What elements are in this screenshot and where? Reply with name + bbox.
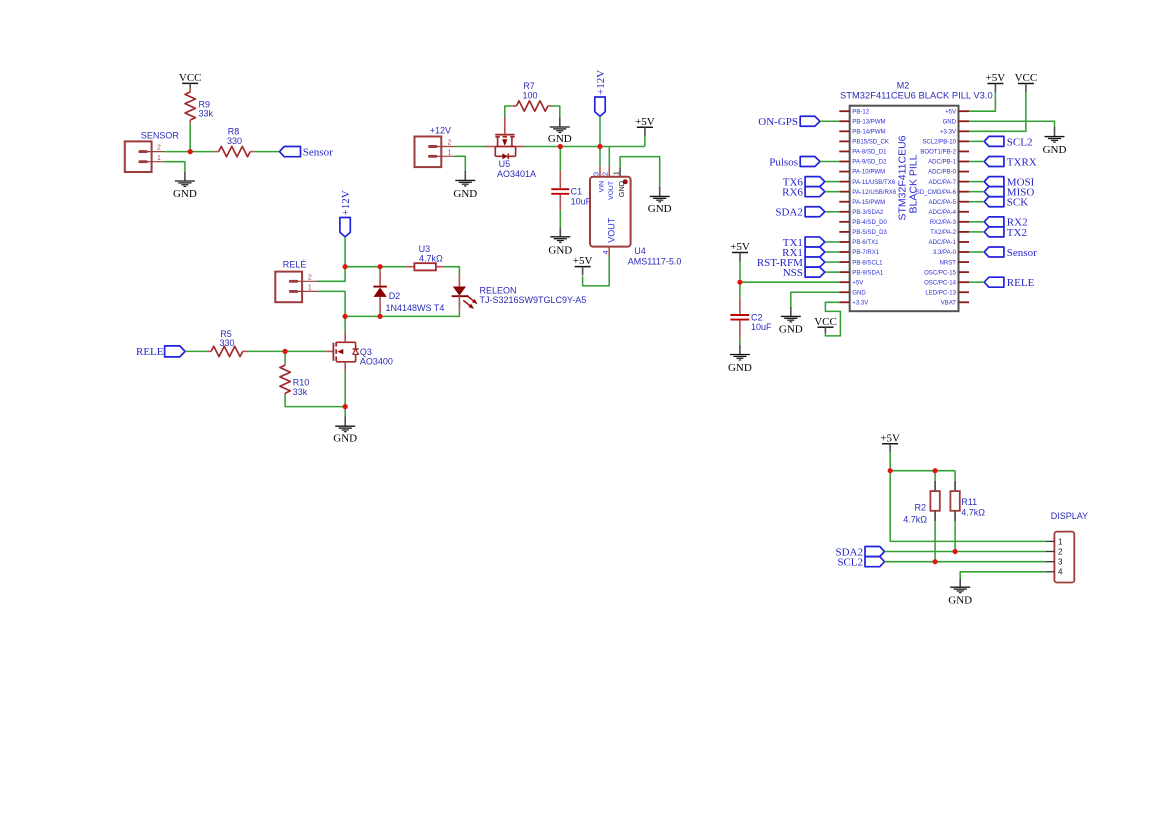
junction xyxy=(953,549,958,554)
pin PB-3/SDA2 xyxy=(839,211,849,213)
svg-text:ADC/PA-5: ADC/PA-5 xyxy=(929,200,957,206)
pin GND xyxy=(959,120,970,122)
svg-text:+5V: +5V xyxy=(573,255,593,267)
svg-text:BLACK PILL: BLACK PILL xyxy=(908,154,920,213)
ground xyxy=(333,417,357,445)
wire +5V drop xyxy=(889,453,891,471)
junction xyxy=(343,404,348,409)
pin ADC/PA-7 xyxy=(959,181,970,183)
pin PA-10/PWM xyxy=(839,171,849,173)
svg-text:SCL2/PB-10: SCL2/PB-10 xyxy=(922,140,956,146)
pin PB-5/SD_D3 xyxy=(839,231,849,233)
svg-text:10uF: 10uF xyxy=(571,196,592,206)
wire flag to junction xyxy=(344,237,346,267)
svg-text:DISPLAY: DISPLAY xyxy=(1051,511,1088,521)
svg-text:PA-12/USB/RX6: PA-12/USB/RX6 xyxy=(852,190,897,196)
resistor R5 xyxy=(207,329,248,357)
capacitor C2 xyxy=(730,282,772,345)
svg-text:TJ-S3216SW9TGLC9Y-A5: TJ-S3216SW9TGLC9Y-A5 xyxy=(480,295,587,305)
transistor Q3 AO3400 xyxy=(326,332,393,371)
svg-text:10uF: 10uF xyxy=(751,322,772,332)
svg-text:BOOT1/PB-2: BOOT1/PB-2 xyxy=(920,150,956,156)
connector SENSOR xyxy=(125,131,180,172)
wire main +12V rail xyxy=(524,146,645,148)
wire display pin3 xyxy=(885,561,1046,563)
svg-text:+5V: +5V xyxy=(635,116,655,128)
svg-text:SENSOR: SENSOR xyxy=(141,131,180,141)
svg-text:LED/PC-13: LED/PC-13 xyxy=(925,290,956,296)
net label SCK xyxy=(969,197,1028,209)
wire source down xyxy=(344,371,346,417)
pin +5V xyxy=(959,110,970,112)
svg-text:2: 2 xyxy=(601,172,610,176)
net label RX6 xyxy=(782,187,839,199)
junction xyxy=(933,468,938,473)
svg-text:RX6: RX6 xyxy=(782,187,803,199)
svg-text:4: 4 xyxy=(601,250,610,254)
wire display pin2 xyxy=(885,551,1046,553)
svg-text:PB-5/SD_D3: PB-5/SD_D3 xyxy=(852,230,887,236)
svg-text:+3.3V: +3.3V xyxy=(940,130,956,136)
connector +12V xyxy=(415,126,455,167)
svg-text:VCC: VCC xyxy=(814,316,837,328)
pin ADC/PA-1 xyxy=(959,241,970,243)
wire pin2 to U5 source xyxy=(455,146,486,148)
svg-text:GND: GND xyxy=(453,188,477,200)
wire bottom rail xyxy=(345,311,459,316)
svg-text:OSC/PC-15: OSC/PC-15 xyxy=(924,270,957,276)
svg-text:2: 2 xyxy=(157,145,161,152)
pin SCL2/PB-10 xyxy=(959,140,970,142)
svg-text:OSC/PC-14: OSC/PC-14 xyxy=(924,280,957,286)
wire U4 pin4 to +5V xyxy=(583,256,610,286)
wire pin2 up to +12V junction xyxy=(317,267,345,282)
svg-text:GND: GND xyxy=(948,594,972,606)
wire +3.3V pin to VCC xyxy=(969,92,1026,131)
wire R5 to gate junction xyxy=(248,350,326,352)
wire top rail xyxy=(890,470,955,472)
wire to U4 VOUT pin2 xyxy=(608,147,610,167)
pin ADC/PB-1 xyxy=(959,160,970,162)
pin PA-8/SD_D1 xyxy=(839,150,849,152)
wire +3.3V pin to VCC loop xyxy=(825,302,840,336)
svg-text:1: 1 xyxy=(157,155,161,162)
svg-text:+12V: +12V xyxy=(340,190,352,215)
pin NRST xyxy=(959,261,970,263)
wire +5V rail xyxy=(740,281,839,283)
svg-text:GND: GND xyxy=(1043,144,1067,156)
module M2 STM32F411CEU6 BLACK PILL xyxy=(839,80,992,311)
svg-text:AO3401A: AO3401A xyxy=(497,169,536,179)
svg-text:Sensor: Sensor xyxy=(1007,247,1037,259)
net label TX1 xyxy=(783,237,840,249)
svg-text:GND: GND xyxy=(173,188,197,200)
wire +5V drop xyxy=(739,261,741,282)
pin PA-12/USB/RX6 xyxy=(839,191,849,193)
resistor R9 xyxy=(185,89,214,124)
svg-text:3.3/PA-0: 3.3/PA-0 xyxy=(933,250,957,256)
regulator U4 AMS1117-5.0 xyxy=(590,166,681,266)
svg-text:U4: U4 xyxy=(634,246,646,256)
svg-text:1N4148WS T4: 1N4148WS T4 xyxy=(386,303,445,313)
ground xyxy=(548,117,572,145)
svg-text:RX2/PA-3: RX2/PA-3 xyxy=(930,220,957,226)
wire xyxy=(189,124,191,152)
svg-text:+5V: +5V xyxy=(986,72,1006,84)
pin +3.3V xyxy=(839,301,849,303)
wire U3 to LED xyxy=(444,267,459,274)
svg-text:PB-13/PWM: PB-13/PWM xyxy=(852,119,885,125)
wire pin2 to junction xyxy=(164,151,215,153)
pin LED/PC-13 xyxy=(959,291,970,293)
svg-text:AMS1117-5.0: AMS1117-5.0 xyxy=(628,257,682,267)
pin PB-12 xyxy=(839,110,849,112)
ground xyxy=(779,307,803,336)
resistor U3 xyxy=(406,244,445,270)
net label RELE xyxy=(969,277,1035,289)
pin VBAT xyxy=(959,301,970,303)
svg-text:C2: C2 xyxy=(751,312,763,322)
net label SDA2 xyxy=(835,546,884,558)
junction xyxy=(188,149,193,154)
pin BOOT1/PB-2 xyxy=(959,150,970,152)
svg-text:PB-9/SDA1: PB-9/SDA1 xyxy=(852,270,884,276)
power VCC xyxy=(1015,72,1038,92)
svg-text:Pulsos: Pulsos xyxy=(769,156,798,168)
ground xyxy=(728,345,752,374)
net flag +12V xyxy=(595,70,607,117)
wire flag to rail and down to U4 VIN xyxy=(599,116,601,166)
junction xyxy=(343,264,348,269)
pin PB-9/SDA1 xyxy=(839,271,849,273)
svg-text:1: 1 xyxy=(448,150,452,157)
wire pin1 down to rail junction xyxy=(317,291,345,316)
svg-text:GND: GND xyxy=(648,203,672,215)
svg-text:+5V: +5V xyxy=(945,109,956,115)
svg-text:3: 3 xyxy=(1058,558,1063,567)
svg-text:GND: GND xyxy=(779,324,803,336)
wire pin1 to ground xyxy=(164,162,185,172)
net label NSS xyxy=(783,267,840,279)
svg-text:GND: GND xyxy=(548,133,572,145)
svg-text:2: 2 xyxy=(1058,547,1063,556)
svg-text:RELE: RELE xyxy=(136,346,164,358)
resistor R7 xyxy=(512,81,551,111)
svg-text:PB-7/RX1: PB-7/RX1 xyxy=(852,250,880,256)
svg-text:3: 3 xyxy=(591,172,600,176)
net label SCL2 xyxy=(969,136,1032,148)
svg-text:+12V: +12V xyxy=(595,70,607,95)
power +5V xyxy=(635,116,655,136)
svg-text:+3.3V: +3.3V xyxy=(852,301,868,307)
wire xyxy=(255,151,280,153)
svg-text:GND: GND xyxy=(333,433,357,445)
pin SD_CMD/PA-6 xyxy=(959,191,970,193)
net label RX1 xyxy=(782,247,839,259)
svg-text:VOUT: VOUT xyxy=(606,217,616,243)
svg-text:GND: GND xyxy=(617,181,626,197)
junction xyxy=(597,144,602,149)
ground xyxy=(173,172,197,200)
svg-text:GND: GND xyxy=(852,290,866,296)
svg-text:SCL2: SCL2 xyxy=(837,557,863,569)
junction xyxy=(888,468,893,473)
svg-text:VOUT: VOUT xyxy=(608,181,615,200)
svg-text:R2: R2 xyxy=(914,503,926,513)
junction xyxy=(737,280,742,285)
wire display pin4 to ground xyxy=(960,572,1046,578)
pin ADC/PB-0 xyxy=(959,171,970,173)
junction xyxy=(343,314,348,319)
net label RST-RFM xyxy=(757,257,839,269)
svg-text:1: 1 xyxy=(612,171,621,175)
diode D2 1N4148WS xyxy=(373,267,444,317)
pin ADC/PA-5 xyxy=(959,201,970,203)
svg-text:Sensor: Sensor xyxy=(303,146,333,158)
svg-text:330: 330 xyxy=(227,136,242,146)
wire rail to Q3 drain xyxy=(344,316,346,332)
junction xyxy=(283,349,288,354)
pin PA-11/USB/TX6 xyxy=(839,181,849,183)
svg-text:SD_CMD/PA-6: SD_CMD/PA-6 xyxy=(916,190,957,196)
svg-text:ADC/PA-7: ADC/PA-7 xyxy=(929,180,957,186)
svg-text:PA-8/SD_D1: PA-8/SD_D1 xyxy=(852,150,887,156)
svg-text:PB-4/SD_D0: PB-4/SD_D0 xyxy=(852,220,887,226)
net label MISO xyxy=(969,187,1034,199)
wire U4 GND pin1 to ground xyxy=(620,157,660,187)
svg-text:SCK: SCK xyxy=(1007,197,1028,209)
power +5V xyxy=(573,255,593,275)
pin TX2/PA-2 xyxy=(959,231,970,233)
wire R7 to ground xyxy=(552,106,560,117)
svg-text:RELE: RELE xyxy=(1007,277,1035,289)
ground xyxy=(453,171,477,200)
pin PA-9/SD_D2 xyxy=(839,160,849,162)
junction xyxy=(933,559,938,564)
wire display pin1 xyxy=(890,471,1046,542)
junction xyxy=(558,144,563,149)
pin PA-15/PWM xyxy=(839,201,849,203)
svg-text:PB-14/PWM: PB-14/PWM xyxy=(852,130,885,136)
net label ON-GPS xyxy=(758,116,839,128)
svg-text:PA-10/PWM: PA-10/PWM xyxy=(852,170,885,176)
pin PB-14/PWM xyxy=(839,130,849,132)
pin RX2/PA-3 xyxy=(959,221,970,223)
net label RELE xyxy=(136,346,185,358)
net label Sensor xyxy=(280,146,334,158)
net label Pulsos xyxy=(769,156,839,168)
svg-text:33k: 33k xyxy=(199,108,214,118)
power +5V xyxy=(880,432,900,452)
svg-text:SDA2: SDA2 xyxy=(775,207,803,219)
wire xyxy=(189,87,191,89)
net label TXRX xyxy=(969,156,1037,168)
svg-text:PB-3/SDA2: PB-3/SDA2 xyxy=(852,210,884,216)
wire +5V pin to power xyxy=(969,92,995,111)
ground xyxy=(948,578,972,606)
svg-text:SCL2: SCL2 xyxy=(1007,136,1033,148)
svg-text:VCC: VCC xyxy=(179,72,202,84)
wire GND pin to ground xyxy=(791,292,840,307)
pin PB15/SD_CK xyxy=(839,140,849,142)
svg-text:4.7kΩ: 4.7kΩ xyxy=(903,514,927,524)
svg-text:VCC: VCC xyxy=(1015,72,1038,84)
svg-text:PA-9/SD_D2: PA-9/SD_D2 xyxy=(852,160,887,166)
pin PB-6/TX1 xyxy=(839,241,849,243)
connector DISPLAY xyxy=(1046,511,1088,582)
svg-text:RELÉ: RELÉ xyxy=(283,259,307,269)
svg-text:1: 1 xyxy=(1058,537,1063,546)
wire flag to R5 xyxy=(185,350,207,352)
power +5V xyxy=(730,241,750,261)
net label RX2 xyxy=(969,217,1028,229)
pin PB-13/PWM xyxy=(839,120,849,122)
svg-text:PA-15/PWM: PA-15/PWM xyxy=(852,200,885,206)
ground xyxy=(648,187,672,215)
junction xyxy=(378,264,383,269)
wire R10 bottom to source junction xyxy=(285,395,345,406)
svg-text:VIN: VIN xyxy=(599,181,606,192)
svg-text:ADC/PB-0: ADC/PB-0 xyxy=(928,170,957,176)
transistor U5 AO3401A xyxy=(485,117,536,179)
pin PB-7/RX1 xyxy=(839,251,849,253)
svg-text:1: 1 xyxy=(308,285,312,292)
svg-text:GND: GND xyxy=(728,362,752,374)
power VCC xyxy=(179,72,202,92)
wire GND pin to ground xyxy=(969,121,1055,127)
resistor R11 xyxy=(950,471,985,552)
svg-text:ADC/PB-1: ADC/PB-1 xyxy=(928,160,957,166)
svg-text:+5V: +5V xyxy=(880,432,900,444)
ground xyxy=(1043,127,1067,156)
svg-text:4.7kΩ: 4.7kΩ xyxy=(419,254,443,264)
net label SCL2 xyxy=(837,557,884,569)
wire +5V drop xyxy=(644,136,646,146)
svg-text:PB-8/SCL1: PB-8/SCL1 xyxy=(852,260,883,266)
svg-text:330: 330 xyxy=(219,338,234,348)
svg-text:NSS: NSS xyxy=(783,267,803,279)
svg-text:4.7kΩ: 4.7kΩ xyxy=(961,507,985,517)
ground xyxy=(548,227,572,256)
resistor R10 xyxy=(280,351,309,397)
net flag +12V xyxy=(340,190,352,237)
svg-text:GND: GND xyxy=(943,119,957,125)
net label SDA2 xyxy=(775,207,839,219)
svg-text:+5V: +5V xyxy=(852,280,863,286)
connector RELE xyxy=(275,259,317,302)
wire pin1 to ground xyxy=(455,156,466,171)
svg-text:4: 4 xyxy=(1058,568,1063,577)
svg-text:C1: C1 xyxy=(571,187,583,197)
svg-text:TX2/PA-2: TX2/PA-2 xyxy=(930,230,956,236)
svg-text:PB-12: PB-12 xyxy=(852,109,869,115)
resistor R8 xyxy=(215,126,255,156)
net label MOSI xyxy=(969,177,1035,189)
net label Sensor xyxy=(969,247,1037,259)
resistor R2 xyxy=(903,471,940,562)
svg-text:TXRX: TXRX xyxy=(1007,156,1037,168)
svg-text:R10: R10 xyxy=(293,377,310,387)
svg-text:PB15/SD_CK: PB15/SD_CK xyxy=(852,140,889,146)
wire top row to U3 and D2 xyxy=(345,266,406,268)
svg-text:RELEON: RELEON xyxy=(480,286,517,296)
svg-text:PB-6/TX1: PB-6/TX1 xyxy=(852,240,879,246)
pin OSC/PC-14 xyxy=(959,281,970,283)
svg-text:D2: D2 xyxy=(389,291,401,301)
net label TX6 xyxy=(783,177,840,189)
svg-text:STM32F411CEU6 BLACK PILL V3.0: STM32F411CEU6 BLACK PILL V3.0 xyxy=(840,90,993,101)
svg-text:+12V: +12V xyxy=(430,126,451,136)
pin GND xyxy=(839,291,849,293)
power VCC xyxy=(814,316,837,333)
svg-text:33k: 33k xyxy=(293,387,308,397)
pin PB-4/SD_D0 xyxy=(839,221,849,223)
svg-text:PA-11/USB/TX6: PA-11/USB/TX6 xyxy=(852,180,895,186)
svg-text:GND: GND xyxy=(548,245,572,257)
wire gate to R7 xyxy=(505,106,512,117)
svg-text:TX2: TX2 xyxy=(1007,227,1027,239)
pin 3.3/PA-0 xyxy=(959,251,970,253)
svg-text:ON-GPS: ON-GPS xyxy=(758,116,798,128)
svg-text:ADC/PA-1: ADC/PA-1 xyxy=(929,240,957,246)
LED RELEON xyxy=(452,274,587,312)
net label TX2 xyxy=(969,227,1027,239)
svg-text:AO3400: AO3400 xyxy=(360,356,393,366)
pin PB-8/SCL1 xyxy=(839,261,849,263)
junction xyxy=(378,314,383,319)
svg-text:2: 2 xyxy=(308,274,312,281)
pin ADC/PA-4 xyxy=(959,211,970,213)
svg-text:VBAT: VBAT xyxy=(941,301,957,307)
power +5V xyxy=(986,72,1006,92)
pin OSC/PC-15 xyxy=(959,271,970,273)
svg-text:100: 100 xyxy=(522,90,537,100)
svg-text:NRST: NRST xyxy=(940,260,957,266)
svg-text:2: 2 xyxy=(448,140,452,147)
pin +3.3V xyxy=(959,130,970,132)
svg-text:ADC/PA-4: ADC/PA-4 xyxy=(929,210,957,216)
svg-text:R11: R11 xyxy=(961,497,977,507)
svg-text:+5V: +5V xyxy=(730,241,750,253)
svg-text:U5: U5 xyxy=(499,159,511,169)
pin +5V xyxy=(839,281,849,283)
capacitor C1 xyxy=(551,147,591,228)
